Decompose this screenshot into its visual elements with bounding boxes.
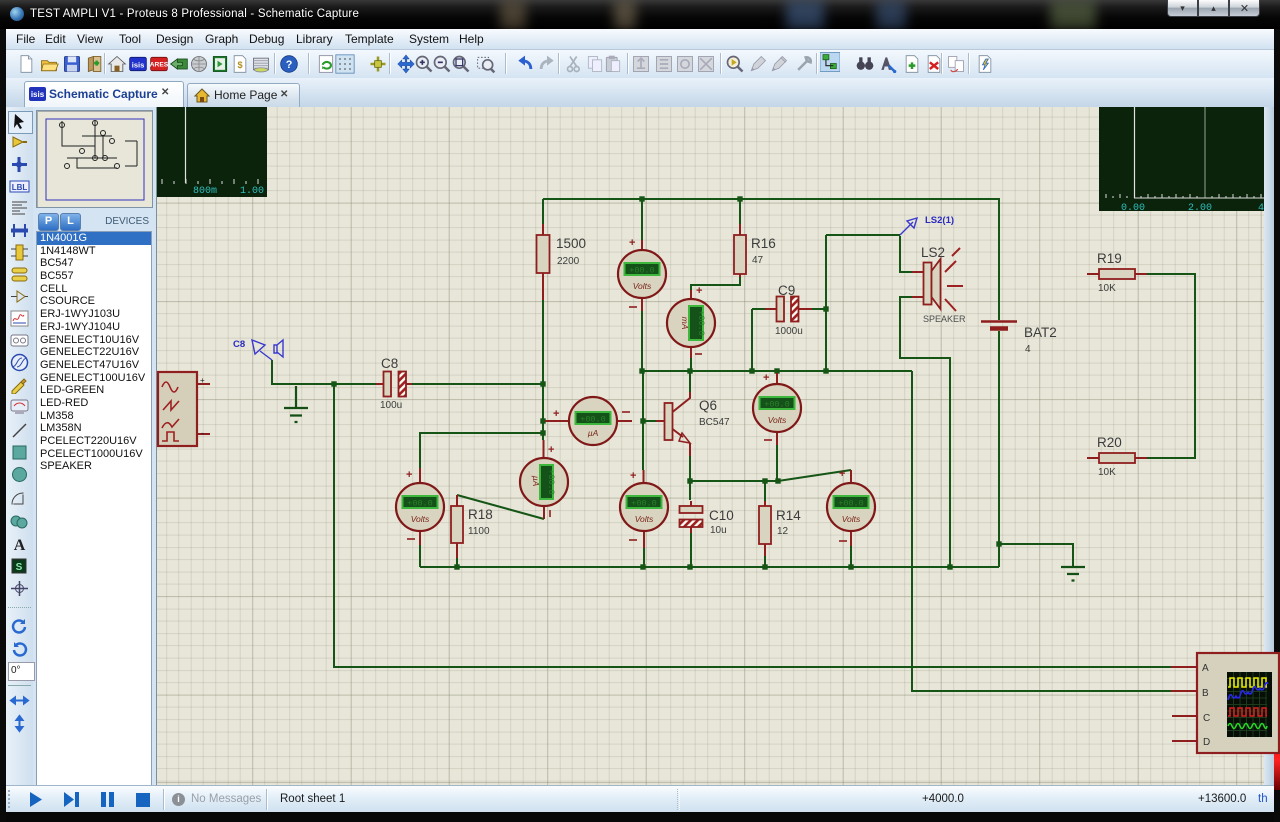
resistor R20 — [1087, 435, 1147, 478]
waveform channel C — [1228, 708, 1267, 716]
wire R18 bottom — [456, 558, 458, 567]
resistor R14 — [759, 501, 801, 556]
wire voltmeter V2 branch — [420, 433, 543, 468]
junction node GND-R14 — [762, 564, 767, 569]
waveform channel A — [1228, 678, 1267, 687]
generator AUDIO1 — [158, 372, 210, 446]
wire R19 R20 loop — [1147, 274, 1195, 458]
wire 1500 top — [542, 199, 544, 224]
junction node C8-V2 — [540, 430, 545, 435]
junction node VCC-R16 — [737, 196, 742, 201]
junction node B-C9left — [749, 368, 754, 373]
wire voltmeter V5 bottom — [850, 546, 852, 567]
wire C10 bottom — [690, 533, 692, 567]
wire ground stub right — [999, 544, 1073, 566]
wire R14 top — [764, 481, 766, 501]
ammeter AM2 uA horizontal — [545, 397, 632, 445]
junction node sense-V4 — [775, 478, 780, 483]
ammeter AM1 mA — [667, 285, 715, 358]
junction node VCC-V1 — [639, 196, 644, 201]
waveform channel D — [1228, 724, 1267, 729]
voltmeter V3 — [620, 470, 668, 548]
battery BAT2 — [981, 322, 1057, 356]
wire C9 right stub — [812, 308, 826, 310]
voltmeter V1 — [618, 237, 666, 311]
svg-text:isis: isis — [31, 90, 45, 99]
capacitor C10 — [680, 501, 734, 536]
wire R14 bottom — [764, 556, 766, 567]
resistor R18 — [451, 495, 493, 558]
wire input right — [410, 383, 543, 385]
junction node B-V1 — [639, 368, 644, 373]
svg-text:isis: isis — [132, 60, 145, 69]
junction node sense-R14 — [762, 478, 767, 483]
audio probe C8 — [252, 340, 283, 360]
wire speaker bottom return — [900, 297, 950, 567]
svg-text:A: A — [14, 537, 26, 554]
wire voltmeter V2 bottom — [419, 545, 421, 567]
wire Q6 emitter column — [689, 456, 691, 500]
wire node C8 column — [542, 300, 544, 440]
wire node D column — [825, 235, 827, 371]
wire R18 diagonal — [457, 495, 544, 519]
voltmeter V5 — [827, 468, 875, 546]
wire mA meter bottom — [690, 358, 692, 371]
svg-text:?: ? — [286, 59, 293, 71]
wire speaker top — [900, 236, 912, 272]
junction node C9-speaker — [823, 306, 828, 311]
junction node GND-V5 — [848, 564, 853, 569]
oscilloscope OSC1 — [1171, 653, 1279, 753]
speaker LS2 — [912, 245, 966, 324]
wire voltmeter V3 bottom — [643, 548, 645, 567]
ammeter AM3 uA vertical — [520, 440, 568, 519]
voltmeter V4 — [753, 372, 801, 445]
junction node base-V3 — [640, 418, 645, 423]
graph window GRAPH1 — [157, 107, 267, 197]
transistor Q6 — [656, 392, 730, 456]
wire C9 left branch — [752, 309, 765, 371]
ground right — [1061, 567, 1085, 581]
ground input — [284, 386, 308, 422]
junction node GND-speaker — [947, 564, 952, 569]
wire R16 top — [739, 199, 741, 224]
svg-text:$: $ — [237, 60, 242, 70]
svg-text:S: S — [16, 562, 23, 573]
junction node IN-C8 — [540, 381, 545, 386]
wire voltmeter V4 bottom — [776, 445, 778, 481]
junction node GND-V3 — [640, 564, 645, 569]
wire node D top — [826, 234, 900, 236]
wire mA meter jog — [691, 276, 740, 290]
junction node B-C9right — [823, 368, 828, 373]
wire to scope channel A — [334, 384, 1171, 667]
graph window GRAPH2 — [1099, 107, 1264, 214]
wire to scope channel B — [912, 371, 1171, 691]
junction node emitter-sense — [687, 478, 692, 483]
wire input left — [272, 360, 376, 384]
resistor 1500 — [537, 224, 587, 300]
junction node B-V4 — [774, 368, 779, 373]
svg-text:ARES: ARES — [150, 62, 169, 69]
wire battery minus column — [998, 331, 1000, 567]
junction node IN-scope — [331, 381, 336, 386]
resistor R19 — [1087, 251, 1147, 294]
wire Q6 collector stub — [689, 371, 691, 392]
resistor R16 — [734, 224, 776, 277]
wire node B horizontal — [642, 370, 912, 372]
wire mid column — [642, 371, 644, 470]
voltmeter V2 — [396, 468, 444, 545]
wire voltmeter V1 top — [641, 199, 643, 240]
wire voltmeter V1 bottom — [641, 311, 643, 371]
capacitor C8 — [376, 356, 412, 411]
wire Q6 base stub — [643, 420, 656, 422]
wire diagonal to V5 — [778, 470, 851, 481]
junction node C8-uA — [540, 418, 545, 423]
junction node B-collector — [687, 368, 692, 373]
capacitor C9 — [765, 283, 812, 337]
junction node GND-C10 — [687, 564, 692, 569]
waveform channel B — [1228, 683, 1268, 700]
junction node GND-earth — [996, 541, 1001, 546]
junction node GND-R18 — [454, 564, 459, 569]
wire VCC top rail — [543, 199, 999, 320]
svg-text:LBL: LBL — [12, 183, 28, 192]
net label LS2(1) — [900, 215, 954, 235]
wire emitter sense — [690, 480, 778, 482]
wire ground rail — [420, 566, 999, 568]
